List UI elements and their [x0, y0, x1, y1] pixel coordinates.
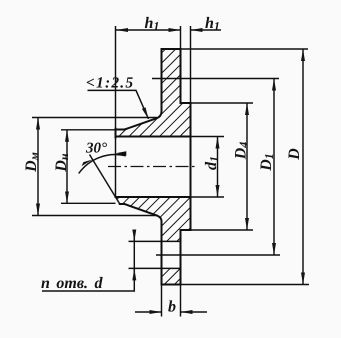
svg-text:<1:2.5: <1:2.5 — [86, 75, 134, 92]
svg-text:D: D — [286, 148, 303, 161]
svg-text:30°: 30° — [85, 141, 107, 157]
svg-text:n отв. d: n отв. d — [41, 275, 103, 292]
svg-text:b: b — [168, 299, 176, 316]
